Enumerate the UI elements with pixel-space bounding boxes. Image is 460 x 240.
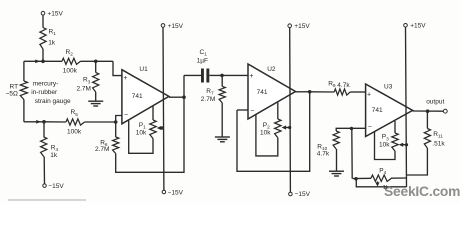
svg-text:.51k: .51k — [432, 140, 445, 147]
wire — [113, 61, 122, 75]
wire (U1 feedback) — [116, 97, 184, 172]
wire — [96, 60, 113, 62]
wiper of P3 — [400, 144, 406, 146]
svg-text:1k: 1k — [48, 40, 56, 47]
svg-text:+15V: +15V — [48, 11, 64, 18]
svg-text:741: 741 — [372, 107, 383, 114]
svg-text:output: output — [426, 98, 444, 105]
node J (output node) — [426, 109, 430, 113]
wire — [183, 75, 185, 97]
wire — [336, 149, 338, 171]
power terminal +15V (U2) — [288, 24, 292, 28]
power terminal -15V (U1) — [162, 190, 166, 194]
svg-text:U3: U3 — [384, 83, 393, 90]
power rail U1 (+15V to -15V) — [162, 27, 165, 190]
svg-text:1k: 1k — [383, 185, 389, 191]
resistor R7 — [221, 75, 223, 86]
potentiometer P3 — [375, 132, 396, 160]
power rail U3 (+15V) — [406, 27, 407, 187]
node E (U1 output) — [182, 95, 186, 99]
wire — [95, 92, 97, 101]
wire — [43, 157, 45, 184]
svg-text:R11: R11 — [433, 131, 443, 139]
power terminal +15V (left) — [41, 11, 45, 15]
ground (R3) — [88, 100, 103, 102]
potentiometer P2 — [256, 115, 278, 156]
svg-text:~5Ω: ~5Ω — [6, 91, 18, 98]
resistor R11 — [426, 111, 428, 128]
svg-text:R7: R7 — [206, 88, 214, 96]
svg-text:−: − — [368, 123, 372, 130]
scan smudge — [8, 199, 86, 201]
potentiometer P1 — [129, 120, 153, 154]
node H (U3 inverting input) — [350, 127, 353, 130]
wire — [356, 179, 406, 187]
svg-text:R1: R1 — [49, 29, 57, 37]
svg-text:+15V: +15V — [294, 23, 310, 30]
wire — [44, 121, 66, 123]
svg-text:R5: R5 — [71, 109, 79, 117]
resistor R4 — [41, 137, 47, 157]
svg-text:−: − — [124, 112, 128, 119]
resistor R5 — [66, 119, 85, 125]
svg-text:741: 741 — [257, 89, 268, 96]
node F (C1/R7 junction) — [220, 74, 224, 78]
resistor R1 — [40, 28, 46, 50]
svg-text:2.7M: 2.7M — [201, 96, 215, 103]
svg-text:C1: C1 — [200, 49, 208, 57]
wire — [42, 15, 44, 28]
strain gauge RT — [20, 81, 27, 100]
svg-text:2.7M: 2.7M — [95, 146, 109, 153]
wire — [237, 109, 248, 111]
svg-text:+15V: +15V — [168, 23, 184, 30]
svg-text:+15V: +15V — [410, 23, 426, 30]
svg-text:P1: P1 — [139, 122, 146, 130]
ground (R7) — [215, 136, 230, 138]
wire — [116, 116, 122, 123]
svg-text:strain gauge: strain gauge — [35, 98, 71, 105]
wiper of P2 — [283, 127, 289, 129]
power rail U2 (+15V to -15V) — [289, 28, 292, 193]
power terminal +15V (U1) — [161, 24, 165, 28]
wire — [43, 122, 45, 137]
power terminal +15V (U3) — [404, 24, 408, 28]
output terminal — [443, 109, 447, 113]
svg-text:U1: U1 — [139, 66, 148, 73]
wire — [413, 110, 444, 112]
wire (U2 feedback) — [237, 92, 310, 172]
svg-text:−15V: −15V — [168, 189, 184, 196]
resistor R10 — [336, 128, 365, 131]
resistor R3 — [95, 61, 97, 72]
potentiometer P4 — [353, 177, 371, 179]
ground (R10) — [329, 170, 344, 172]
wiper of P4 — [377, 181, 379, 184]
svg-text:+: + — [249, 73, 253, 80]
svg-text:100k: 100k — [67, 128, 82, 135]
wire — [407, 148, 428, 175]
node I (P4 left end) — [354, 177, 358, 181]
wire — [85, 121, 116, 123]
wire — [184, 74, 201, 76]
svg-text:10k: 10k — [136, 130, 147, 137]
wire — [296, 91, 310, 93]
svg-text:R4: R4 — [51, 145, 59, 153]
svg-text:SeekIC.com: SeekIC.com — [384, 184, 460, 199]
power terminal -15V (U2) — [289, 192, 293, 196]
svg-text:R3: R3 — [83, 77, 91, 85]
node A (bridge top output) — [41, 60, 45, 64]
op-amp U2 — [248, 64, 296, 119]
node B (bridge bottom output) — [42, 120, 46, 124]
svg-text:10k: 10k — [260, 130, 271, 137]
wiper of P1 — [159, 127, 163, 129]
svg-text:10k: 10k — [379, 141, 390, 148]
resistor R9 — [334, 89, 350, 95]
svg-text:P2: P2 — [263, 122, 270, 130]
svg-text:100k: 100k — [63, 67, 78, 74]
svg-text:−15V: −15V — [295, 191, 311, 198]
svg-text:741: 741 — [132, 93, 143, 100]
node C (R2/R3 junction) — [94, 60, 98, 64]
capacitor C1 — [201, 69, 204, 83]
wire — [42, 49, 44, 61]
wire — [350, 91, 365, 93]
svg-text:in-rubber: in-rubber — [31, 89, 58, 96]
wire — [310, 91, 335, 93]
svg-text:R9 4.7k: R9 4.7k — [328, 81, 350, 90]
svg-text:+: + — [123, 75, 127, 82]
resistor R6 — [115, 122, 117, 137]
svg-text:P4: P4 — [379, 167, 386, 175]
svg-text:U2: U2 — [267, 66, 276, 73]
wire — [23, 61, 25, 81]
wire — [24, 60, 43, 62]
svg-text:1µF: 1µF — [197, 57, 208, 64]
svg-text:R2: R2 — [66, 49, 74, 57]
wire — [24, 121, 44, 123]
svg-text:1k: 1k — [50, 152, 58, 159]
power terminal -15V (left) — [43, 184, 47, 188]
wire — [209, 74, 248, 76]
svg-text:2.7M: 2.7M — [77, 86, 91, 93]
wire — [81, 60, 96, 62]
wire — [43, 60, 62, 62]
resistor R2 — [62, 58, 81, 64]
svg-text:mercury-: mercury- — [33, 81, 59, 88]
wire — [351, 129, 353, 179]
wire — [221, 103, 223, 137]
svg-text:P3: P3 — [382, 134, 389, 142]
op-amp U1 — [122, 70, 169, 124]
svg-text:−: − — [250, 108, 254, 115]
svg-text:4.7k: 4.7k — [317, 150, 330, 157]
svg-text:−15V: −15V — [48, 183, 64, 190]
wire — [169, 96, 184, 98]
wire — [23, 100, 25, 122]
node G (U2 output) — [308, 90, 312, 94]
node D (U1 inverting input) — [114, 120, 118, 124]
svg-text:+: + — [367, 92, 371, 99]
op-amp U3 — [366, 84, 413, 137]
